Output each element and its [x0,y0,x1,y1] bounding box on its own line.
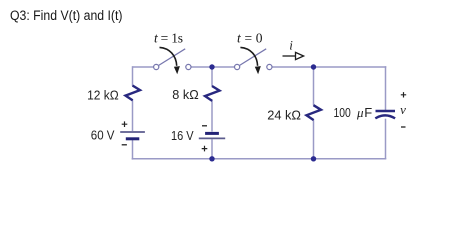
wire top-right segment [272,66,386,68]
battery 16V negative short plate [205,132,219,135]
current arrow shaft [283,55,296,57]
svg-text:8 kΩ: 8 kΩ [172,87,199,102]
wire top-left segment [133,66,154,68]
capacitor minus sign [401,126,406,128]
switch SW2 blade [240,49,267,66]
switch SW2 arrowhead [255,66,261,74]
wire right branch upper [385,66,387,110]
switch SW2 right terminal [267,64,272,69]
svg-text:t = 0: t = 0 [237,31,263,46]
switch SW1 actuation arc [160,47,177,65]
svg-text:i: i [289,38,293,53]
wire right branch lower [385,119,387,159]
switch SW1 left terminal [154,64,159,69]
current arrow open head [296,52,304,59]
node junction top of 8k branch [209,64,214,69]
wire left branch middle [132,100,134,131]
svg-text:24 kΩ: 24 kΩ [267,107,301,122]
capacitor plus sign [401,92,406,97]
battery 60V plus sign [122,121,128,127]
resistor 24 kOhm [307,105,322,120]
battery 60V negative short plate [126,137,140,140]
battery 60V positive long plate [120,131,145,133]
wire 24k branch lower [313,120,315,159]
wire middle branch mid [211,101,213,132]
svg-text:60 V: 60 V [91,128,115,143]
resistor 12 kOhm [126,86,141,101]
wire middle branch upper [211,67,213,86]
svg-text:Q3: Find V(t) and I(t): Q3: Find V(t) and I(t) [10,8,123,24]
wire middle branch lower [211,139,213,159]
svg-text:12 kΩ: 12 kΩ [87,87,119,102]
node junction bottom of 8k branch [209,156,214,161]
resistor 8 kOhm [205,86,220,101]
svg-text:μ: μ [356,105,364,120]
switch SW2 left terminal [235,64,240,69]
svg-text:F: F [364,105,372,120]
wire left branch lower [132,140,134,160]
switch SW1 blade [159,49,186,66]
battery 16V positive long plate [199,137,225,139]
svg-text:16 V: 16 V [171,128,194,143]
battery 16V plus sign [202,146,208,152]
switch SW2 actuation arc [240,47,257,65]
wire bottom [132,158,387,160]
node junction top of 24k branch [311,64,316,69]
wire left branch upper [132,66,134,86]
switch SW1 right terminal [186,64,191,69]
svg-text:v: v [400,102,406,117]
node junction bottom of 24k branch [311,156,316,161]
capacitor 100uF curved plate [375,115,395,118]
battery 60V minus sign [122,144,127,146]
switch SW1 arrowhead [174,66,180,74]
battery 16V minus sign [202,125,207,127]
capacitor 100uF top plate [376,110,396,112]
wire 24k branch upper [313,67,315,105]
wire between switch1 and switch2 [191,66,234,68]
svg-text:t = 1s: t = 1s [154,31,183,46]
svg-text:100: 100 [334,105,351,120]
